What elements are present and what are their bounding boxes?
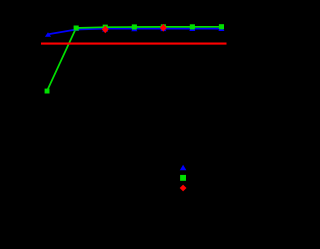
- blue triangle marker, point 2: [73, 26, 79, 31]
- blue triangle marker, point 3: [102, 27, 108, 32]
- blue triangle marker, point 5: [160, 26, 166, 31]
- blue triangle marker, point 1: [45, 32, 51, 37]
- green square marker, point 7: [219, 24, 224, 29]
- green data line: [47, 27, 221, 91]
- blue data line: [48, 29, 222, 35]
- red diamond marker A: [102, 26, 109, 34]
- blue triangle marker, point 7: [218, 26, 224, 31]
- red horizontal line: [41, 43, 227, 45]
- green square marker, point 4: [132, 24, 137, 29]
- blue triangle marker, point 4: [131, 26, 137, 31]
- green square marker, point 6: [190, 24, 195, 29]
- green square marker, point 3: [103, 25, 108, 30]
- red diamond marker B: [160, 24, 167, 32]
- green square marker, point 1 (lower left): [45, 89, 50, 94]
- legend red diamond: [180, 185, 187, 192]
- legend green square: [180, 175, 186, 181]
- legend blue triangle: [180, 165, 187, 170]
- green square marker, point 5: [161, 24, 166, 29]
- green square marker, point 2: [74, 26, 79, 31]
- blue triangle marker, point 6: [189, 26, 195, 31]
